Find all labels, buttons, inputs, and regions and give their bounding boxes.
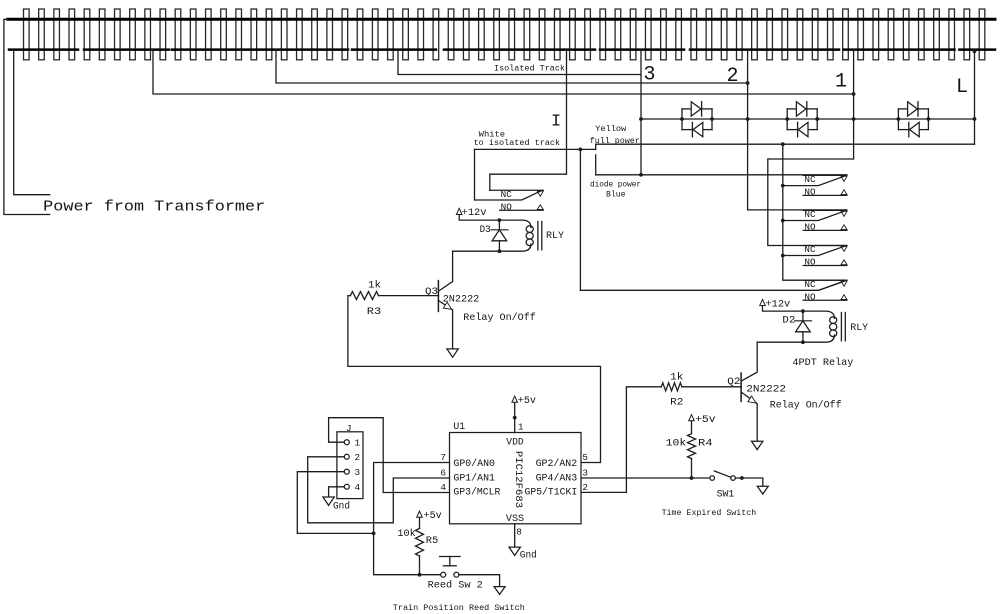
svg-text:NO: NO	[804, 188, 815, 198]
connector J	[337, 432, 363, 499]
SW1 arm	[714, 471, 730, 477]
svg-text:Relay On/Off: Relay On/Off	[463, 312, 536, 324]
svg-text:Power from Transformer: Power from Transformer	[43, 200, 265, 216]
svg-text:2: 2	[727, 65, 739, 88]
junction SW1 right	[740, 476, 744, 480]
svg-text:VDD: VDD	[506, 436, 524, 447]
junction D3 bottom	[498, 249, 502, 253]
junction pole3	[781, 254, 785, 258]
junction pole1	[781, 184, 785, 188]
connector J pin 2	[344, 454, 349, 459]
junction white wire branch	[579, 148, 583, 152]
wire R5 to reed switch	[419, 556, 421, 575]
svg-text:to isolated track: to isolated track	[474, 138, 560, 148]
wire relay2 to Q2 collector	[757, 341, 803, 343]
wire yellow full power	[596, 144, 975, 149]
junction J3 / GP0 net	[372, 532, 376, 536]
wire +12v to relay1	[459, 215, 499, 221]
svg-text:3: 3	[582, 468, 588, 479]
junction wire3 / NC1 line	[639, 173, 643, 177]
svg-text:NO: NO	[804, 258, 815, 268]
svg-text:5: 5	[582, 452, 588, 463]
wire NC1 line from node 3	[596, 174, 847, 176]
svg-text:4: 4	[440, 482, 446, 493]
svg-text:GP1/AN1: GP1/AN1	[453, 473, 495, 484]
svg-text:NO: NO	[501, 202, 512, 212]
svg-text:NC: NC	[804, 210, 816, 220]
wire: isolated section I to relay NC	[490, 50, 567, 191]
reed switch button stem	[449, 557, 451, 566]
svg-text:1k: 1k	[670, 372, 683, 384]
svg-text:+5v: +5v	[695, 415, 716, 426]
+12v supply relay1	[456, 208, 462, 214]
svg-text:GP4/AN3: GP4/AN3	[536, 473, 578, 484]
svg-text:VSS: VSS	[506, 513, 524, 524]
junction diode row / wire 2	[746, 117, 750, 121]
bottom rail isolated segments	[9, 48, 995, 51]
resistor R5 10k	[416, 528, 424, 556]
wire: segment4 drop bus to node 3	[398, 50, 641, 75]
wire: bottom rail segment 1 to transformer	[14, 50, 50, 195]
svg-text:full power: full power	[590, 136, 640, 146]
svg-text:2: 2	[582, 482, 588, 493]
junction on rail segment L	[973, 49, 977, 53]
connector J pin 4	[344, 484, 349, 489]
svg-text:GP2/AN2: GP2/AN2	[536, 458, 578, 469]
svg-text:Reed Sw 2: Reed Sw 2	[428, 579, 483, 591]
relay coil RLY1	[499, 220, 531, 227]
ground VSS	[509, 547, 520, 555]
svg-text:Relay On/Off: Relay On/Off	[770, 400, 842, 412]
wire: top rail to transformer	[4, 19, 50, 214]
reed switch button bar	[443, 565, 456, 567]
junction D2 top	[801, 309, 805, 313]
wire SW1 to ground	[735, 478, 763, 486]
wire diode row	[641, 118, 975, 120]
top rail (full power)	[8, 18, 995, 21]
wire reed switch to ground	[459, 575, 500, 587]
svg-text:Time Expired Switch: Time Expired Switch	[662, 508, 757, 518]
svg-text:NC: NC	[804, 175, 816, 185]
diode pair D-B	[786, 109, 788, 130]
wire +5v to R4	[691, 421, 693, 434]
svg-text:3: 3	[644, 64, 656, 87]
transistor Q2	[740, 373, 742, 401]
+5v supply VDD	[512, 396, 518, 402]
svg-text:GP0/AN0: GP0/AN0	[453, 458, 495, 469]
svg-text:1k: 1k	[368, 279, 381, 291]
junction node 2 bus	[746, 81, 750, 85]
wire white to isolated track	[475, 148, 596, 150]
junction pin1 wire	[513, 416, 517, 420]
IC U1 PIC12F683	[450, 433, 582, 524]
svg-text:R4: R4	[698, 439, 713, 450]
switch SW1	[710, 476, 715, 481]
wire GP5 pin2 to R2	[581, 387, 661, 493]
svg-text:NO: NO	[804, 292, 815, 302]
junction R5 / reed row	[418, 573, 422, 577]
junction D2 bottom	[801, 340, 805, 344]
wire: segment2 drop bus to node 1	[153, 50, 854, 94]
junction diode row / wire L	[973, 117, 977, 121]
diode pair D-A	[681, 109, 683, 130]
wire R4 to SW1 row	[691, 459, 693, 478]
svg-text:NO: NO	[804, 223, 815, 233]
svg-text:R5: R5	[426, 536, 438, 547]
resistor R2 1k	[661, 383, 682, 391]
svg-text:J: J	[346, 423, 352, 434]
wire 1 vertical to NC3	[768, 50, 854, 246]
relay coil RLY2	[803, 311, 835, 318]
svg-text:D2: D2	[782, 316, 795, 327]
wire GP4 pin3 to SW1	[581, 477, 710, 479]
wire J3 to GP0 net	[297, 472, 373, 534]
wire relay1 to Q3 collector	[453, 250, 500, 252]
wire R2 to Q2 base	[682, 386, 741, 388]
wire GP2 pin5 to R3	[348, 296, 601, 463]
connector J pin 3	[344, 469, 349, 474]
svg-text:RLY: RLY	[850, 323, 868, 334]
+12v supply relay2	[760, 299, 766, 305]
svg-text:SW1: SW1	[717, 489, 735, 500]
svg-text:L: L	[956, 76, 968, 99]
svg-text:2N2222: 2N2222	[746, 384, 786, 395]
junction diode row / wire 3	[639, 117, 643, 121]
wire 3 vertical	[640, 50, 642, 175]
wire: segment3 drop bus to node 2	[276, 50, 748, 83]
diode pair D-C	[897, 109, 899, 130]
svg-text:6: 6	[440, 468, 446, 479]
+5v supply R5	[417, 511, 423, 517]
svg-text:+5v: +5v	[518, 396, 536, 407]
svg-text:D3: D3	[480, 225, 491, 236]
junction node 1 bus	[852, 92, 856, 96]
relay contact K2-1 (NC/NO)	[803, 174, 847, 176]
wire GP3 pin4 to J1	[329, 418, 450, 493]
svg-text:1: 1	[355, 437, 361, 448]
ground J4	[323, 497, 334, 505]
resistor R4 10k	[688, 434, 696, 459]
svg-text:R2: R2	[670, 398, 683, 409]
ground SW1	[757, 486, 768, 494]
wire pin1 to +5v	[514, 403, 516, 433]
svg-text:1: 1	[518, 421, 524, 432]
ground Q3 emitter	[447, 349, 458, 357]
svg-text:4PDT Relay: 4PDT Relay	[792, 357, 853, 369]
svg-text:Gnd: Gnd	[520, 549, 537, 561]
track ties	[24, 9, 985, 60]
svg-text:Isolated Track: Isolated Track	[494, 64, 565, 74]
svg-text:1: 1	[835, 71, 847, 94]
ground Q2 emitter	[752, 441, 763, 449]
svg-text:I: I	[551, 112, 561, 131]
svg-text:10k: 10k	[397, 528, 415, 540]
wire pin8 to ground	[514, 524, 516, 547]
svg-text:GP3/MCLR: GP3/MCLR	[453, 487, 500, 498]
svg-text:PIC12F683: PIC12F683	[513, 451, 524, 508]
junction R4 / SW1 row	[690, 476, 694, 480]
svg-text:8: 8	[516, 527, 522, 538]
svg-text:+5v: +5v	[424, 511, 442, 522]
connector J pin 1	[344, 440, 349, 445]
relay contact K2-3 (NC/NO)	[803, 245, 847, 247]
svg-text:Gnd: Gnd	[333, 500, 350, 512]
svg-text:NC: NC	[804, 280, 816, 290]
wire +5v to R5	[419, 517, 421, 528]
svg-text:4: 4	[355, 482, 361, 493]
svg-text:NC: NC	[804, 245, 816, 255]
svg-text:GP5/T1CKI: GP5/T1CKI	[525, 487, 578, 498]
junction full power / common	[781, 142, 785, 146]
diode D3	[498, 220, 500, 230]
svg-text:R3: R3	[367, 307, 382, 318]
svg-text:+12v: +12v	[462, 208, 487, 219]
relay contact K3 (NC/NO)	[490, 189, 543, 191]
reed switch button cap	[440, 556, 460, 558]
svg-text:NC: NC	[501, 190, 513, 200]
junction D3 top	[498, 218, 502, 222]
svg-text:Train Position Reed Switch: Train Position Reed Switch	[393, 603, 525, 613]
wire relay common vertical to NC4	[783, 144, 847, 280]
svg-text:diode power: diode power	[590, 179, 641, 189]
wire white branch to contact4 pole	[580, 149, 844, 290]
svg-text:Blue: Blue	[606, 189, 626, 199]
junction diode row / wire 1	[852, 117, 856, 121]
svg-text:3: 3	[355, 467, 361, 478]
junction pole2	[781, 219, 785, 223]
wire 2 vertical to NC2	[748, 50, 847, 210]
svg-text:2N2222: 2N2222	[443, 294, 480, 305]
svg-text:2: 2	[355, 452, 361, 463]
wire R3 to Q3 base	[379, 295, 439, 297]
wire white to contact pole	[474, 149, 476, 200]
svg-text:Q2: Q2	[727, 377, 740, 388]
relay contact K2-2 (NC/NO)	[803, 209, 847, 211]
wire J4 to ground	[329, 487, 345, 497]
wire stub to NC1 line	[595, 155, 597, 175]
ground reed switch	[494, 587, 505, 595]
wire L vertical	[974, 50, 976, 145]
svg-text:10k: 10k	[666, 438, 687, 450]
wire GP0 pin7 to reed switch	[374, 463, 450, 575]
wire +12v to relay2	[763, 306, 803, 312]
resistor R3 1k	[350, 292, 378, 300]
svg-text:RLY: RLY	[546, 231, 564, 242]
svg-text:7: 7	[440, 452, 446, 463]
+5v supply R4	[689, 415, 695, 421]
relay contact K2-4 (NC/NO)	[803, 279, 847, 281]
reed switch Reed Sw 2	[441, 572, 446, 577]
svg-text:+12v: +12v	[765, 299, 790, 310]
diode D2	[802, 311, 804, 321]
svg-text:U1: U1	[453, 421, 465, 432]
wire GP1 pin6 to J2	[308, 457, 450, 523]
transistor Q3	[437, 281, 439, 312]
svg-text:Yellow: Yellow	[595, 124, 627, 134]
